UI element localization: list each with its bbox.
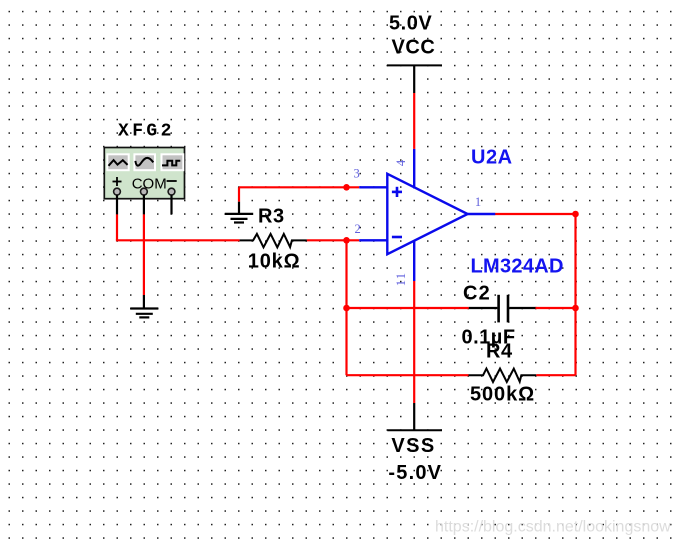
pin 11 stub (blue): [413, 240, 415, 281]
svg-text:https://blog.csdn.net/lookings: https://blog.csdn.net/lookingsnow: [435, 519, 671, 536]
junction node at output corner: [572, 211, 579, 218]
op-amp U2A triangle: [387, 174, 467, 254]
wire: C2 right (red): [536, 307, 576, 309]
svg-text:COM: COM: [132, 175, 167, 192]
svg-text:10kΩ: 10kΩ: [248, 251, 301, 273]
XFG2 terminal labels + COM -: [113, 175, 177, 192]
svg-text:500kΩ: 500kΩ: [470, 384, 535, 406]
XFG2 square-wave button: [162, 154, 184, 170]
junction node at pin 3: [343, 184, 350, 191]
wire: ground stem at R3 (black): [238, 202, 240, 214]
svg-text:11: 11: [394, 272, 408, 286]
junction node at pin 2: [343, 237, 350, 244]
svg-text:4: 4: [394, 159, 408, 166]
junction node C2 right: [572, 305, 579, 312]
svg-text:R3: R3: [258, 206, 285, 228]
wire: C2 right lead (black): [509, 307, 536, 309]
op-amp plus sign: [392, 187, 402, 197]
wire: to op-amp non-inverting input (red): [239, 186, 359, 188]
XFG2 triangle-wave button: [107, 154, 128, 170]
wire: VSS stem (red): [413, 281, 415, 403]
svg-text:2: 2: [354, 222, 360, 236]
wire: XFG2 plus down (red): [116, 214, 118, 240]
pin 3 stub (blue): [359, 186, 387, 188]
wire: XFG2 COM down (red): [143, 214, 145, 295]
wire: left vertical from inverting node (red): [345, 240, 347, 375]
wire: output to right corner (red): [495, 213, 575, 215]
XFG2 COM terminal: [141, 188, 148, 195]
svg-text:1: 1: [475, 195, 481, 209]
svg-text:-5.0V: -5.0V: [388, 462, 442, 484]
op-amp minus sign: [392, 236, 402, 239]
ground below COM: [130, 309, 158, 318]
svg-text:VCC: VCC: [392, 37, 436, 59]
wire: C2 left lead (black): [469, 307, 498, 309]
XFG2 sine-wave button: [134, 154, 155, 170]
VCC power symbol: [387, 64, 442, 66]
svg-text:VSS: VSS: [391, 435, 435, 457]
svg-text:LM324AD: LM324AD: [471, 256, 564, 278]
wire: VCC stem (black): [413, 65, 415, 93]
VSS power symbol: [387, 429, 442, 431]
wire: C2 left (red): [347, 307, 469, 309]
svg-text:C2: C2: [463, 283, 491, 305]
ground near R3: [225, 214, 253, 223]
svg-text:U2A: U2A: [471, 147, 513, 169]
svg-text:XFG2: XFG2: [118, 122, 175, 142]
wire: VCC stem (red): [413, 93, 415, 149]
wire: ground drop to non-inverting wire (red): [238, 187, 240, 201]
wire: XFG2 minus pin stub (black): [170, 195, 172, 215]
pin 4 stub (blue): [413, 149, 415, 189]
wire: right vertical feedback (red): [574, 214, 576, 375]
wire: XFG2 plus to R3 (red): [116, 239, 240, 241]
wire: R3 to inverting input (red): [307, 239, 359, 241]
wire: XFG2 COM pin stub (black): [143, 195, 145, 215]
junction node C2 left: [343, 305, 350, 312]
wire: XFG2 plus pin stub (black): [116, 195, 118, 215]
wire: R4 right (red): [536, 374, 575, 376]
svg-text:3: 3: [353, 167, 359, 181]
XFG2 minus terminal: [168, 188, 175, 195]
pin 1 output stub (blue): [468, 213, 496, 215]
pin 2 stub (blue): [359, 239, 387, 241]
resistor R4: [469, 369, 537, 382]
wire: VSS stem (black): [413, 403, 415, 430]
function generator XFG2 body: [104, 148, 184, 199]
capacitor C2: [499, 295, 508, 323]
svg-text:5.0V: 5.0V: [389, 13, 432, 35]
wire: R4 left (red): [347, 374, 469, 376]
XFG2 plus terminal: [114, 188, 121, 195]
svg-text:R4: R4: [486, 341, 513, 363]
resistor R3: [240, 234, 307, 247]
wire: XFG2 COM ground stem (black): [143, 295, 145, 309]
